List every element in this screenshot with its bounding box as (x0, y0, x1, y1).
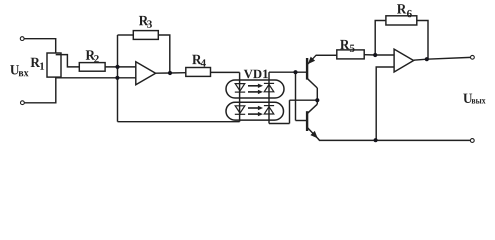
diode VD1 top-right (264, 83, 274, 91)
label R5 R (340, 40, 349, 49)
wire collector junction horizontal (290, 99, 318, 101)
label Uout sub (472, 99, 486, 103)
wire lower rail to VD1 return (118, 121, 240, 123)
label R2 R (86, 50, 95, 59)
input terminal bottom (21, 101, 25, 105)
wire R2 to op-amp U1 input (105, 66, 136, 68)
transistor Q1 body (307, 55, 337, 88)
wire photodiode return vertical (289, 100, 291, 123)
wire base rail top (269, 71, 307, 73)
resistor R1 (47, 53, 61, 77)
light arrows bottom (248, 106, 263, 117)
wire collector junction vertical (316, 88, 318, 104)
node collector junction (315, 98, 319, 102)
label R6 sub (407, 10, 412, 17)
label R4 sub (201, 59, 206, 66)
light arrows top (248, 84, 263, 95)
label Uin U (10, 65, 19, 74)
wire emitter rail bottom (319, 139, 470, 141)
wire R4 to VD1 (211, 71, 240, 73)
diode VD1 top-left (235, 84, 245, 93)
wire op-amp U2 lower input (376, 67, 394, 140)
diode VD1 bottom-right (264, 106, 274, 114)
optocoupler VD1 top case (226, 80, 284, 98)
op-amp U2 (394, 49, 414, 72)
wire emitter to R5 (316, 54, 337, 56)
wire photodiode return horizontal (269, 123, 290, 125)
wire R3 left lead (118, 34, 134, 36)
label R4 R (192, 55, 201, 64)
op-amp U1 (136, 62, 156, 85)
wire R5 to op-amp U2 (364, 54, 394, 56)
input terminal top (20, 37, 24, 41)
label VD1 (244, 70, 268, 79)
resistor R3 (133, 31, 158, 40)
node U1 output junction (168, 71, 172, 75)
wire base interconnect (295, 72, 297, 120)
wire R6 feedback right (417, 21, 428, 60)
wire R3 right lead (158, 35, 170, 73)
output terminal top (471, 55, 475, 59)
label R6 R (397, 4, 406, 13)
node base junction (293, 70, 297, 74)
output terminal bottom (470, 139, 474, 143)
wire VD1 led column (239, 72, 241, 121)
resistor R4 (186, 68, 211, 77)
label Uin sub (19, 71, 29, 76)
wire base rail bottom (296, 120, 307, 122)
wire vertical feedback node (117, 35, 119, 122)
resistor R2 (79, 63, 105, 72)
wire node A step to R2 (56, 55, 80, 67)
wire input top to R1 (24, 39, 55, 53)
wire U1 output to R4 (156, 72, 186, 75)
node U2 output junction (425, 57, 429, 61)
wire lower rail to op-amp U1 input (56, 77, 136, 79)
junction dots (115, 53, 429, 142)
label R1 R (31, 58, 40, 67)
wire VD1 photodiode column (268, 72, 270, 123)
node R2/R3 junction (115, 65, 119, 69)
transistor Q2 body (307, 104, 319, 140)
label R3 sub (147, 20, 152, 27)
label Uout U (463, 94, 472, 103)
label R2 sub (94, 55, 99, 62)
label R1 sub (40, 63, 44, 70)
node emitter rail junction (374, 138, 378, 142)
node lower input junction (115, 76, 119, 80)
node R5/R6 junction (373, 53, 377, 57)
label R5 sub (350, 45, 355, 52)
diode VD1 bottom-left (235, 106, 245, 115)
wire U2 output (414, 57, 471, 60)
resistor R6 (386, 16, 417, 25)
optocoupler VD1 bottom case (226, 102, 284, 120)
label R3 R (139, 16, 148, 25)
wire R6 feedback left (375, 21, 386, 56)
wire input bottom to R1 (25, 77, 56, 103)
resistor R5 (337, 50, 364, 59)
